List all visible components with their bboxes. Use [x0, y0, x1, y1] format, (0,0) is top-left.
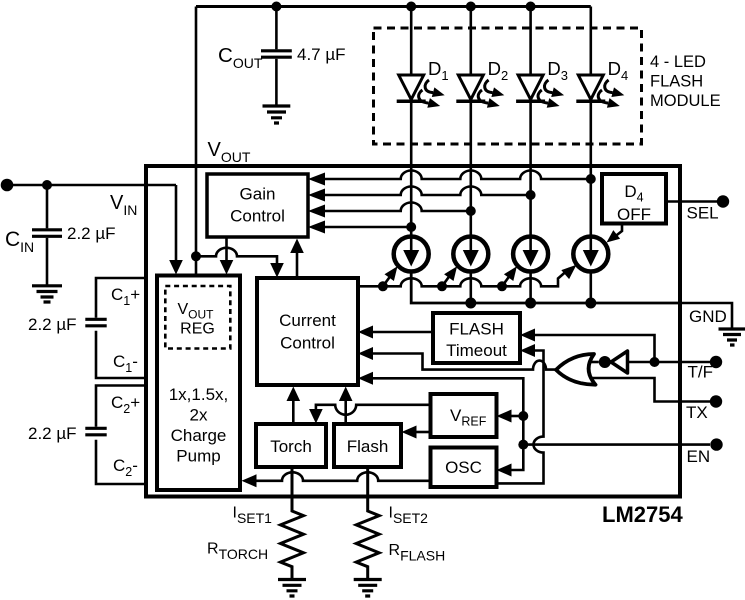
pin TX: [710, 395, 722, 407]
junction dot COUT to rail: [271, 2, 281, 12]
wire VREF to Torch with dip: [316, 405, 431, 415]
wire VOUT top rail: [196, 5, 591, 8]
block Flash: [334, 424, 401, 467]
IC boundary LM2754: [146, 166, 680, 497]
svg-text:FLASH: FLASH: [650, 73, 703, 91]
svg-text:Flash: Flash: [347, 437, 389, 456]
wire T/F pin: [628, 361, 711, 364]
junction dot D1 anode to rail: [406, 2, 416, 12]
wire T/F to FLASH Timeout arrow: [520, 329, 535, 342]
svg-text:LM2754: LM2754: [602, 502, 683, 527]
svg-text:1x,1.5x,: 1x,1.5x,: [169, 385, 229, 404]
svg-text:4.7 µF: 4.7 µF: [297, 45, 346, 64]
LED D2 emission arrows: [478, 80, 504, 108]
block VREF: [431, 394, 497, 437]
ground RFLASH: [354, 580, 382, 597]
svg-text:2x: 2x: [190, 406, 208, 425]
svg-text:2.2 µF: 2.2 µF: [28, 315, 77, 334]
wire FLASH Timeout to current control arrow: [358, 326, 373, 339]
wire VIN input: [7, 184, 176, 187]
inverter on T/F: [591, 351, 628, 373]
junction dot EN OSC: [518, 440, 528, 450]
wire I2 to bus: [469, 273, 472, 303]
LED D1 emission arrows: [419, 80, 445, 108]
wire GND pin: [680, 303, 732, 328]
junction dot CIN tap: [42, 180, 52, 190]
flying capacitor C1 box: [96, 278, 146, 378]
svg-text:Pump: Pump: [176, 447, 220, 466]
LED D4: [576, 7, 605, 236]
gate XOR output to current control: [358, 347, 373, 360]
svg-text:Charge: Charge: [171, 426, 227, 445]
svg-text:Torch: Torch: [270, 437, 312, 456]
block Current Control: [257, 278, 358, 385]
svg-text:2.2 µF: 2.2 µF: [28, 424, 77, 443]
svg-text:T/F: T/F: [688, 363, 714, 382]
wire EN to current control: [373, 378, 523, 444]
wire OSC to charge pump with hops: [256, 472, 431, 481]
ground RTORCH: [278, 580, 306, 597]
wire EN to VREF arrow: [511, 415, 523, 418]
block Gain Control: [207, 174, 308, 237]
adjust arrow I2: [442, 275, 451, 287]
ground below COUT: [263, 106, 291, 123]
wire EN to OSC arrow: [511, 445, 523, 470]
svg-text:FLASH: FLASH: [449, 320, 504, 339]
current source I3: [513, 236, 548, 272]
block charge pump: [157, 276, 240, 491]
gain sense line 3 to D2 column: [308, 205, 325, 218]
junction dot line1 D4: [586, 174, 596, 184]
ground GND pin: [719, 329, 745, 345]
current source I4: [573, 236, 608, 272]
pin EN: [710, 438, 722, 450]
svg-text:Gain: Gain: [240, 185, 276, 204]
svg-text:REG: REG: [180, 321, 215, 338]
wire I3 to bus: [529, 273, 532, 303]
wire current control rail: [358, 269, 570, 287]
wire VREF to Flash arrow: [416, 431, 431, 434]
wire bottom bus to GND: [411, 273, 680, 303]
svg-text:2.2 µF: 2.2 µF: [67, 224, 116, 243]
VIN input terminal: [1, 179, 14, 192]
resistor RTORCH: [281, 467, 304, 578]
gain sense line 4 to D1 column: [308, 221, 325, 234]
LED D2: [456, 7, 485, 236]
block OSC: [431, 448, 497, 488]
svg-text:Control: Control: [230, 207, 285, 226]
junction dot D2 anode to rail: [466, 2, 476, 12]
svg-text:GND: GND: [689, 307, 727, 326]
svg-text:OFF: OFF: [617, 205, 651, 224]
svg-text:TX: TX: [686, 403, 708, 422]
wire OSC to FLASH Timeout arrow: [520, 344, 535, 357]
resistor RFLASH: [356, 467, 379, 578]
junction dot bus I4: [585, 298, 596, 309]
svg-text:Timeout: Timeout: [446, 341, 507, 360]
capacitor C2 plates: [85, 428, 106, 435]
wire Flash to current control arrow: [344, 398, 347, 424]
gain sense line 2 to D3 column: [308, 189, 325, 202]
wire Torch to current control arrow: [292, 398, 295, 424]
dashed box 4-LED flash module: [374, 28, 642, 144]
junction dot VOUT branch: [191, 251, 201, 261]
block VOUT REG dashed: [165, 286, 230, 349]
adjust arrow I3: [502, 275, 511, 287]
gate XOR: [556, 354, 596, 385]
pin T/F: [710, 356, 722, 368]
capacitor CIN: [32, 185, 62, 285]
junction dot control I1: [378, 281, 388, 291]
wire VOUT vertical from rail to charge pump: [195, 7, 198, 276]
wire gain control to charge pump arrow: [225, 237, 228, 262]
ground below CIN: [32, 286, 62, 302]
pin SEL: [717, 195, 729, 207]
junction dot T/F branch: [650, 357, 660, 367]
wire TX pin to XOR: [592, 378, 710, 402]
junction dot control I3: [497, 281, 507, 291]
svg-text:SEL: SEL: [687, 204, 719, 223]
gain sense line 1 to D4 column: [308, 173, 325, 186]
capacitor C1 plates: [85, 319, 106, 326]
flying capacitor C2 box: [96, 386, 146, 485]
junction dot line4 D1: [406, 222, 416, 232]
current source I1: [394, 236, 429, 272]
wire I4 to bus: [589, 273, 592, 303]
svg-text:Control: Control: [280, 334, 335, 353]
LED D4 emission arrows: [598, 80, 624, 108]
block D4 OFF: [602, 174, 666, 224]
junction dot D3 anode to rail: [526, 2, 536, 12]
junction dot line2 D3: [526, 190, 536, 200]
LED D1: [397, 7, 426, 236]
svg-text:4 - LED: 4 - LED: [650, 53, 706, 71]
svg-text:MODULE: MODULE: [650, 92, 721, 110]
svg-text:EN: EN: [687, 447, 711, 466]
block FLASH Timeout: [433, 313, 520, 363]
LED D3: [516, 7, 545, 236]
svg-text:OSC: OSC: [445, 458, 482, 477]
wire current control to gain control arrow: [296, 250, 299, 278]
junction dot EN VREF: [518, 411, 528, 421]
block Torch: [256, 424, 326, 467]
arrowhead control to I4: [561, 265, 576, 279]
current source I2: [453, 236, 488, 272]
LED D3 emission arrows: [538, 80, 564, 108]
adjust arrow I1: [383, 275, 392, 287]
wire VIN arrow into charge pump: [175, 185, 178, 262]
junction dot bus I2: [465, 298, 476, 309]
wire VOUT branch to current control with hop: [196, 248, 277, 265]
svg-text:Current: Current: [279, 311, 336, 330]
junction dot line3 D2: [466, 206, 476, 216]
junction dot control I2: [437, 281, 447, 291]
junction dot bus I3: [525, 298, 536, 309]
wire EN pin: [523, 443, 710, 446]
wire D4 OFF to I4 arrow: [613, 224, 622, 239]
wire D4 OFF to SEL pin: [666, 200, 717, 203]
capacitor COUT: [261, 7, 292, 106]
